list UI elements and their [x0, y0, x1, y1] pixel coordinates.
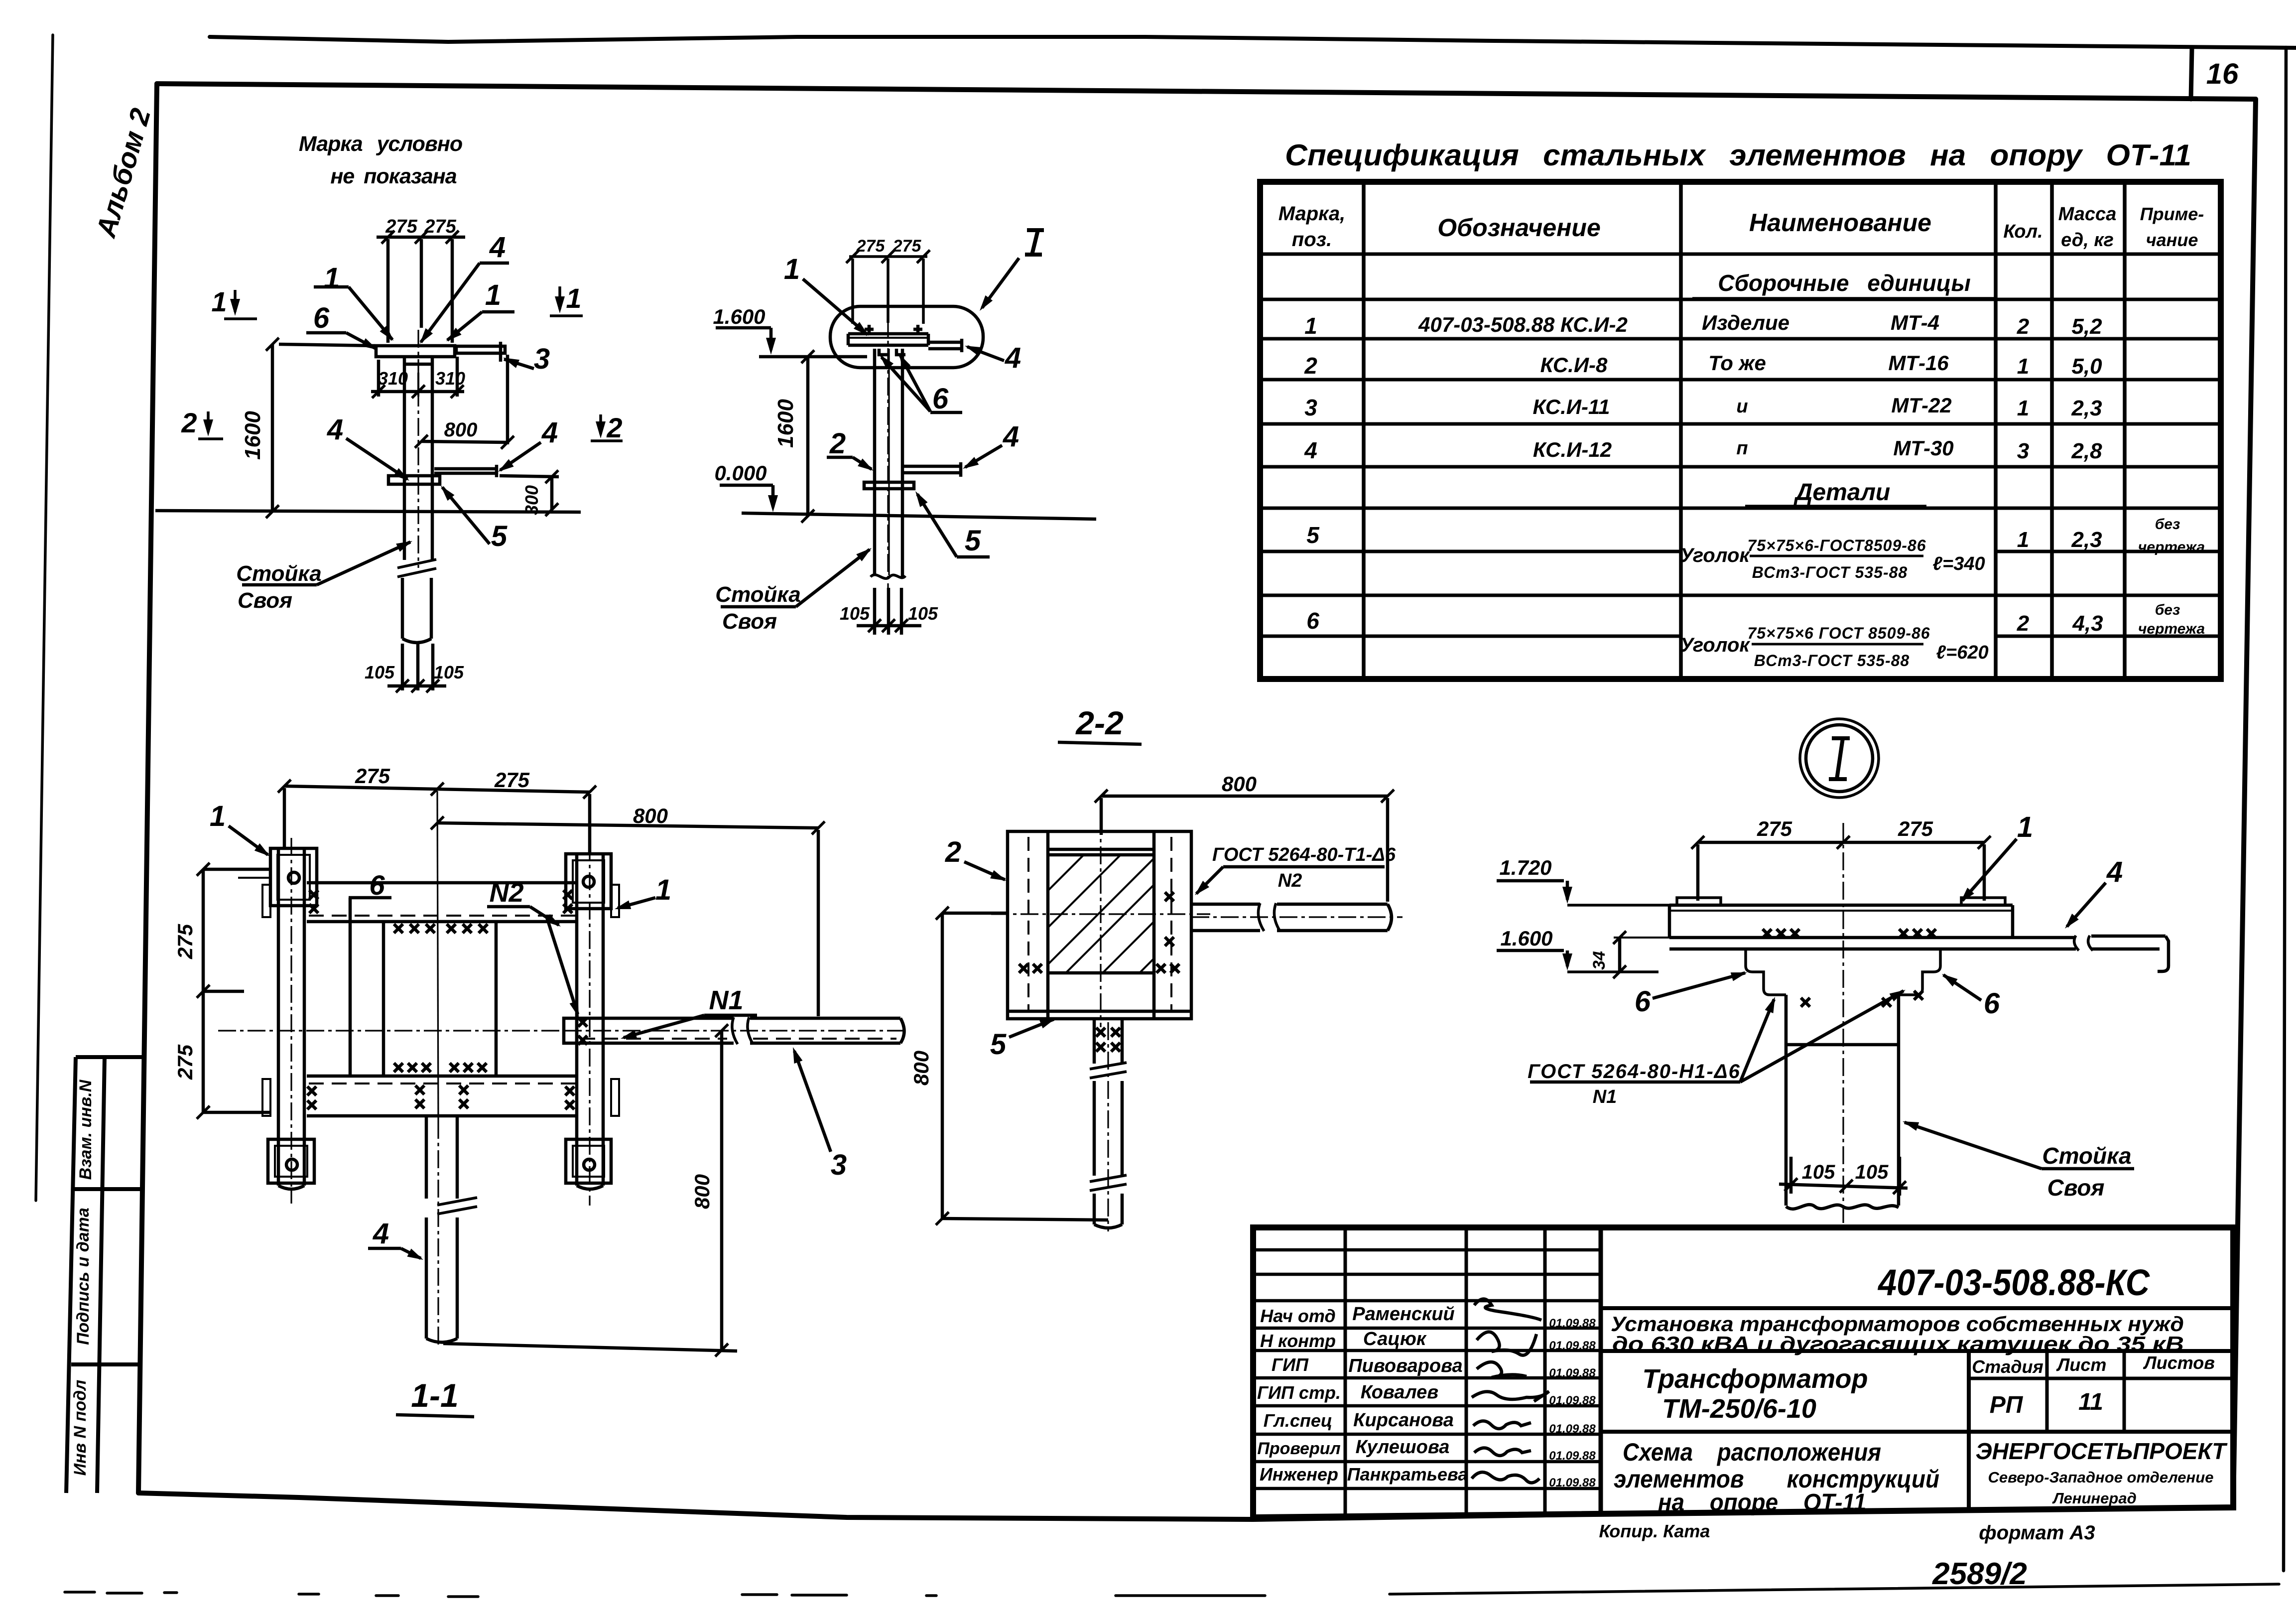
svg-text:4: 4: [373, 1217, 389, 1250]
svg-text:Своя: Своя: [722, 609, 777, 634]
svg-text:275: 275: [173, 924, 197, 959]
svg-text:275: 275: [494, 768, 530, 792]
svg-text:2: 2: [2017, 314, 2030, 339]
svg-text:4: 4: [1304, 437, 1317, 463]
svg-text:и: и: [1736, 396, 1748, 417]
svg-text:Марка,: Марка,: [1278, 203, 1346, 225]
svg-text:элементов конструкций: элементов конструкций: [1614, 1465, 1939, 1493]
svg-text:2: 2: [1304, 353, 1317, 379]
svg-text:105: 105: [908, 603, 938, 624]
svg-text:Стойка: Стойка: [715, 582, 800, 607]
svg-text:ГОСТ 5264-80-Т1-Δ6: ГОСТ 5264-80-Т1-Δ6: [1212, 844, 1396, 865]
svg-text:105: 105: [365, 662, 395, 682]
svg-text:275: 275: [1898, 817, 1933, 840]
svg-text:МТ-30: МТ-30: [1893, 436, 1953, 460]
svg-text:чертежа: чертежа: [2138, 539, 2205, 555]
svg-text:34: 34: [1590, 951, 1609, 970]
svg-text:11: 11: [2078, 1389, 2103, 1415]
svg-text:То же: То же: [1708, 351, 1766, 375]
svg-text:105: 105: [434, 662, 464, 682]
svg-text:75×75×6 ГОСТ 8509-86: 75×75×6 ГОСТ 8509-86: [1747, 624, 1930, 642]
svg-text:ВСт3-ГОСТ 535-88: ВСт3-ГОСТ 535-88: [1752, 563, 1908, 581]
svg-text:800: 800: [909, 1051, 933, 1085]
svg-text:ГИП стр.: ГИП стр.: [1257, 1382, 1341, 1403]
svg-text:1: 1: [566, 282, 581, 314]
svg-text:2,3: 2,3: [2071, 528, 2102, 552]
svg-text:Гл.спец: Гл.спец: [1264, 1410, 1332, 1431]
svg-text:Панкратьева: Панкратьева: [1347, 1464, 1468, 1485]
svg-text:КС.И-12: КС.И-12: [1533, 438, 1612, 461]
svg-text:без: без: [2155, 516, 2180, 533]
svg-text:2: 2: [606, 412, 622, 443]
svg-text:Изделие: Изделие: [1702, 311, 1789, 334]
svg-text:01.09.88: 01.09.88: [1549, 1339, 1596, 1352]
svg-text:105: 105: [1802, 1161, 1835, 1183]
svg-text:5: 5: [965, 525, 981, 557]
svg-text:МТ-16: МТ-16: [1888, 351, 1949, 375]
svg-text:310: 310: [435, 368, 465, 389]
svg-text:4: 4: [327, 413, 343, 446]
svg-text:1.600: 1.600: [713, 305, 765, 328]
svg-text:1: 1: [2017, 396, 2029, 420]
svg-text:Своя: Своя: [2047, 1175, 2104, 1201]
svg-text:1.720: 1.720: [1499, 856, 1551, 879]
svg-text:ℓ=340: ℓ=340: [1932, 553, 1985, 574]
svg-text:2589/2: 2589/2: [1932, 1557, 2027, 1591]
svg-text:407-03-508.88-КС: 407-03-508.88-КС: [1877, 1262, 2150, 1303]
svg-text:ВСт3-ГОСТ 535-88: ВСт3-ГОСТ 535-88: [1754, 652, 1910, 670]
svg-text:275: 275: [856, 237, 886, 256]
svg-text:Кирсанова: Кирсанова: [1353, 1410, 1454, 1431]
svg-text:6: 6: [1635, 985, 1651, 1018]
svg-text:310: 310: [378, 368, 408, 389]
svg-text:ТМ-250/6-10: ТМ-250/6-10: [1662, 1394, 1816, 1424]
svg-text:407-03-508.88 КС.И-2: 407-03-508.88 КС.И-2: [1418, 313, 1628, 336]
svg-text:1600: 1600: [773, 399, 798, 448]
svg-text:N2: N2: [1278, 870, 1302, 891]
svg-text:275: 275: [424, 216, 456, 237]
svg-text:МТ-4: МТ-4: [1891, 311, 1939, 334]
svg-text:Трансформатор: Трансформатор: [1643, 1364, 1868, 1394]
svg-text:Сборочные единицы: Сборочные единицы: [1718, 270, 1971, 296]
svg-text:Раменский: Раменский: [1352, 1304, 1455, 1325]
svg-text:Уголок: Уголок: [1680, 544, 1750, 566]
svg-text:5: 5: [491, 520, 508, 552]
svg-text:Проверил: Проверил: [1257, 1439, 1340, 1458]
svg-text:1: 1: [324, 262, 340, 294]
svg-text:Стадия: Стадия: [1972, 1356, 2043, 1377]
svg-text:01.09.88: 01.09.88: [1549, 1422, 1596, 1436]
svg-text:1600: 1600: [241, 411, 265, 460]
svg-text:75×75×6-ГОСТ8509-86: 75×75×6-ГОСТ8509-86: [1748, 537, 1926, 554]
svg-text:6: 6: [313, 302, 330, 334]
svg-text:2: 2: [181, 407, 197, 438]
svg-text:без: без: [2155, 602, 2180, 618]
svg-text:01.09.88: 01.09.88: [1549, 1366, 1596, 1380]
svg-text:Схема расположения: Схема расположения: [1623, 1438, 1881, 1466]
svg-text:Листов: Листов: [2143, 1352, 2215, 1373]
svg-text:Обозначение: Обозначение: [1437, 214, 1601, 242]
svg-text:5,2: 5,2: [2071, 314, 2102, 339]
svg-text:300: 300: [521, 485, 542, 515]
svg-text:16: 16: [2206, 58, 2239, 90]
svg-text:Кулешова: Кулешова: [1356, 1437, 1450, 1458]
svg-text:Альбом 2: Альбом 2: [90, 105, 156, 242]
svg-text:до 630 кВА и дугогасящих катуш: до 630 кВА и дугогасящих катушек до 35 к…: [1612, 1332, 2184, 1355]
svg-text:4: 4: [541, 416, 558, 449]
svg-text:Лист: Лист: [2056, 1354, 2107, 1375]
svg-text:Ковалев: Ковалев: [1361, 1382, 1438, 1403]
svg-text:2: 2: [945, 836, 961, 868]
svg-text:ЭНЕРГОСЕТЬПРОЕКТ: ЭНЕРГОСЕТЬПРОЕКТ: [1976, 1438, 2228, 1464]
svg-text:Инженер: Инженер: [1260, 1464, 1338, 1485]
svg-text:Н контр: Н контр: [1260, 1331, 1336, 1351]
svg-text:4: 4: [2106, 856, 2123, 888]
svg-text:ℓ=620: ℓ=620: [1936, 642, 1988, 663]
svg-text:Стойка: Стойка: [2042, 1143, 2131, 1169]
svg-text:Пивоварова: Пивоварова: [1348, 1355, 1462, 1376]
svg-text:1: 1: [2017, 811, 2033, 843]
svg-text:800: 800: [690, 1174, 714, 1209]
svg-text:2,3: 2,3: [2071, 396, 2102, 420]
svg-text:N2: N2: [489, 878, 523, 908]
svg-text:КС.И-11: КС.И-11: [1532, 395, 1610, 418]
svg-text:275: 275: [1757, 817, 1792, 840]
svg-text:Спецификация стальных элементо: Спецификация стальных элементов на опору…: [1285, 138, 2191, 172]
svg-text:01.09.88: 01.09.88: [1549, 1317, 1596, 1330]
svg-text:N1: N1: [709, 985, 743, 1015]
svg-text:КС.И-8: КС.И-8: [1540, 353, 1608, 377]
svg-text:Марка условно: Марка условно: [299, 132, 462, 156]
svg-text:Приме-: Приме-: [2140, 204, 2204, 224]
svg-text:3: 3: [1304, 395, 1317, 420]
svg-text:Ленинерад: Ленинерад: [2052, 1489, 2137, 1507]
svg-text:Сацюк: Сацюк: [1363, 1329, 1427, 1350]
svg-text:N1: N1: [1593, 1086, 1617, 1107]
svg-text:Уголок: Уголок: [1680, 634, 1750, 656]
svg-text:Взам. инв.N: Взам. инв.N: [76, 1079, 95, 1180]
svg-text:Стойка: Стойка: [236, 561, 321, 586]
svg-text:6: 6: [1984, 987, 2000, 1020]
svg-text:на опоре ОТ-11: на опоре ОТ-11: [1658, 1489, 1866, 1516]
svg-text:Копир. Ката: Копир. Ката: [1599, 1521, 1710, 1541]
svg-text:Детали: Детали: [1793, 479, 1891, 506]
svg-text:800: 800: [444, 419, 478, 441]
svg-text:6: 6: [1306, 608, 1319, 634]
svg-text:3: 3: [2017, 439, 2029, 463]
svg-text:формат А3: формат А3: [1979, 1522, 2095, 1544]
svg-text:чертежа: чертежа: [2138, 621, 2205, 637]
svg-text:п: п: [1736, 438, 1748, 459]
svg-text:2,8: 2,8: [2071, 439, 2102, 463]
svg-text:2: 2: [829, 427, 846, 460]
svg-text:3: 3: [534, 343, 550, 375]
svg-text:275: 275: [173, 1044, 197, 1080]
svg-text:275: 275: [355, 764, 390, 788]
svg-text:4,3: 4,3: [2072, 611, 2103, 636]
svg-text:ед, кг: ед, кг: [2061, 230, 2114, 251]
svg-text:1.600: 1.600: [1500, 927, 1552, 950]
svg-text:4: 4: [489, 231, 506, 264]
svg-text:Инв N подл: Инв N подл: [71, 1380, 90, 1476]
svg-text:Кол.: Кол.: [2003, 221, 2042, 242]
svg-text:5: 5: [990, 1028, 1007, 1061]
svg-text:105: 105: [1855, 1161, 1889, 1183]
svg-text:Подпись и дата: Подпись и дата: [74, 1208, 93, 1345]
svg-text:1-1: 1-1: [411, 1377, 458, 1414]
svg-text:ГОСТ 5264-80-Н1-Δ6: ГОСТ 5264-80-Н1-Δ6: [1528, 1061, 1741, 1082]
svg-text:1: 1: [485, 279, 501, 311]
svg-text:4: 4: [1003, 420, 1019, 453]
svg-text:0.000: 0.000: [714, 461, 766, 485]
svg-text:800: 800: [1222, 772, 1257, 796]
svg-text:275: 275: [385, 216, 417, 237]
svg-text:6: 6: [932, 383, 949, 415]
svg-text:1: 1: [211, 286, 227, 317]
svg-text:800: 800: [633, 804, 668, 827]
svg-text:поз.: поз.: [1292, 229, 1332, 251]
svg-text:1: 1: [210, 800, 226, 832]
svg-text:105: 105: [840, 603, 870, 624]
svg-text:Северо-Западное отделение: Северо-Западное отделение: [1988, 1469, 2214, 1486]
svg-text:5: 5: [1306, 522, 1320, 548]
svg-text:чание: чание: [2146, 230, 2198, 250]
svg-text:4: 4: [1005, 342, 1021, 374]
svg-text:1: 1: [655, 874, 671, 906]
svg-text:1: 1: [2017, 528, 2029, 552]
svg-text:1: 1: [2017, 354, 2029, 379]
svg-text:Своя: Своя: [238, 588, 292, 613]
svg-text:не показана: не показана: [330, 164, 456, 188]
svg-text:1: 1: [784, 253, 800, 285]
svg-text:01.09.88: 01.09.88: [1549, 1449, 1596, 1463]
svg-text:Масса: Масса: [2058, 204, 2117, 225]
svg-text:5,0: 5,0: [2071, 354, 2102, 379]
svg-text:275: 275: [893, 237, 922, 256]
svg-text:01.09.88: 01.09.88: [1549, 1476, 1596, 1489]
svg-text:РП: РП: [1990, 1392, 2024, 1418]
svg-text:1: 1: [1304, 313, 1317, 339]
svg-text:2: 2: [2017, 611, 2030, 636]
svg-text:МТ-22: МТ-22: [1891, 394, 1951, 417]
svg-text:Нач отд: Нач отд: [1260, 1306, 1335, 1326]
svg-text:6: 6: [369, 869, 385, 901]
svg-text:ГИП: ГИП: [1272, 1354, 1309, 1375]
svg-text:Наименование: Наименование: [1749, 209, 1931, 237]
svg-text:01.09.88: 01.09.88: [1549, 1394, 1596, 1407]
svg-text:3: 3: [831, 1149, 847, 1181]
svg-text:2-2: 2-2: [1075, 704, 1124, 741]
